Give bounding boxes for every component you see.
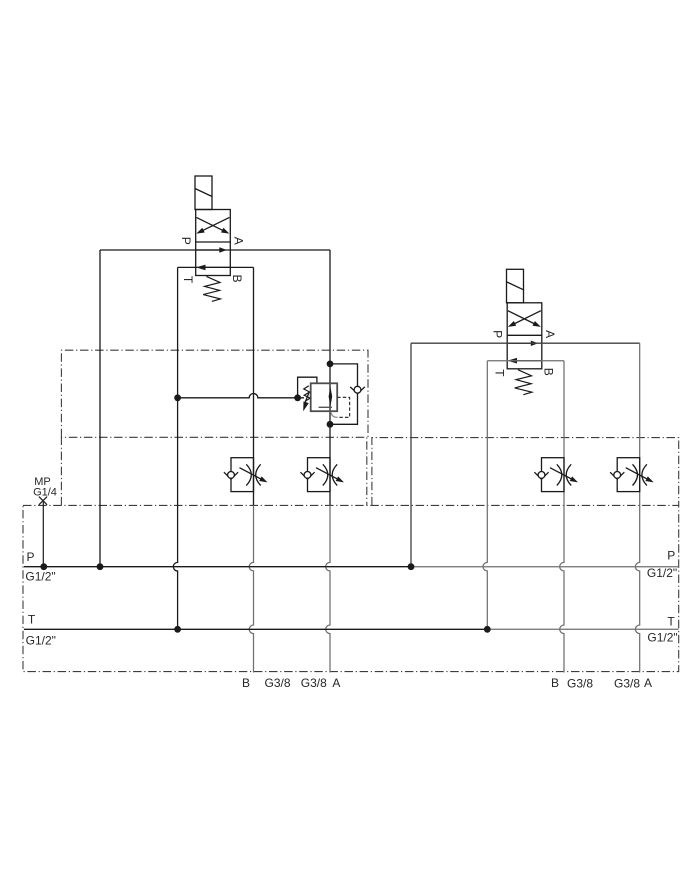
svg-text:G1/2": G1/2" (26, 633, 56, 647)
wire valve1 A drop through relief valve (329, 364, 331, 424)
wire valve1 A drop relief to manifold (329, 424, 331, 505)
MP gauge port plug (X) (39, 497, 47, 505)
check valve CV1 ball (354, 386, 361, 393)
relief valve V1 pilot line (dashed) (337, 397, 350, 417)
P rail (right, gray) (411, 566, 679, 568)
solenoid valve U1 (4/2 directional control valve) (179, 176, 245, 301)
T rail (right, gray) (487, 628, 678, 630)
svg-text:B: B (551, 676, 559, 690)
relief valve V1 adjust arrow (305, 392, 310, 405)
wire valve1 P-A horizontal (100, 249, 330, 251)
manifold main block outline (23, 505, 679, 671)
check valve CV1 seat (350, 387, 365, 394)
svg-text:A: A (644, 676, 652, 690)
wire valve1 B drop (upper, black) (253, 267, 255, 505)
wire relief pilot branch from valve1 T drop (hops over B1 drop) (178, 394, 304, 398)
check valve CV1 bypass wire (330, 364, 358, 424)
node valve2-T junction (484, 626, 491, 633)
manifold section outline (relief valve block) (61, 350, 368, 437)
node relief vent junction (294, 394, 301, 401)
flow control valve FC4 (port A2) (610, 458, 654, 492)
svg-text:G3/8: G3/8 (264, 676, 290, 690)
relief valve V1 pilot tap elbow (331, 412, 338, 418)
node MP-P junction (40, 563, 47, 570)
wire valve2 A port drop (hops over P and T rails) (635, 343, 639, 672)
svg-text:T: T (28, 612, 36, 626)
P rail (left, black) (24, 566, 411, 568)
wire valve1 B port drop (lower, gray, hops over P and T rails) (249, 505, 253, 672)
svg-text:G1/2": G1/2" (647, 566, 677, 580)
node valve1-P junction (97, 563, 104, 570)
svg-text:G1/2": G1/2" (647, 630, 677, 644)
svg-text:T: T (667, 615, 675, 629)
svg-text:G3/8: G3/8 (567, 677, 593, 691)
manifold section outline (flow control block, left) (61, 437, 366, 505)
manifold section outline (flow control block, right) (372, 438, 679, 506)
wire valve2 B port drop (hops over P and T rails) (560, 361, 564, 673)
node relief pilot branch (174, 394, 181, 401)
svg-text:G1/4: G1/4 (33, 486, 57, 498)
solenoid valve U2 (4/2 directional control valve) (491, 269, 557, 394)
wire valve1 A port drop (lower, gray, hops over P and T rails) (326, 505, 330, 672)
node valve1-T junction (174, 626, 181, 633)
relief valve V1 spring (304, 386, 310, 402)
svg-text:P: P (667, 549, 675, 563)
wire valve1 A drop to relief node (329, 250, 331, 364)
svg-text:P: P (26, 550, 34, 564)
svg-text:B: B (242, 676, 250, 690)
wire MP to P rail (42, 502, 44, 567)
svg-text:G3/8: G3/8 (301, 676, 327, 690)
wire valve2 P drop to P rail (410, 343, 412, 567)
flow control valve FC3 (port B2) (534, 458, 578, 492)
svg-text:G3/8: G3/8 (614, 677, 640, 691)
node relief top junction (327, 361, 334, 368)
relief valve V1 flow spindle (329, 387, 333, 407)
node valve2-P junction (408, 563, 415, 570)
svg-text:A: A (332, 676, 340, 690)
wire valve2 T drop to T rail (hops over P rail) (483, 361, 487, 630)
wire valve1 P drop to P rail (99, 250, 101, 567)
flow control valve FC1 (port B1) (224, 458, 268, 492)
T rail (left, black) (24, 628, 487, 630)
wire valve2 P-A horizontal (411, 342, 640, 344)
svg-text:G1/2": G1/2" (25, 570, 55, 584)
flow control valve FC2 (port A1) (300, 458, 344, 492)
wire valve1 T drop to T rail (hops over P rail) (173, 267, 177, 629)
relief valve V1 seat line (319, 406, 332, 408)
wire valve2 T-B horizontal (487, 360, 564, 362)
node relief bottom junction (327, 421, 334, 428)
wire valve1 T-B horizontal (178, 266, 254, 268)
wire relief vent loop (298, 377, 317, 398)
relief valve V1 body (311, 383, 338, 411)
